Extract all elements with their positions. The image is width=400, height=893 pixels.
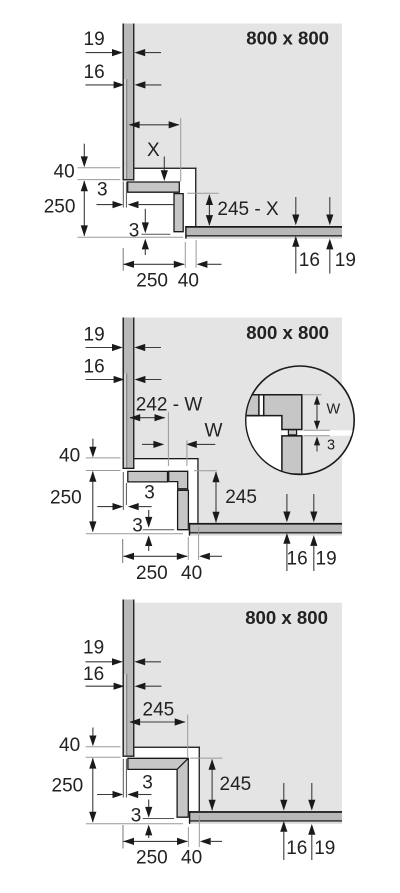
svg-text:W: W	[327, 402, 341, 418]
svg-text:3: 3	[327, 438, 335, 454]
svg-text:16: 16	[84, 62, 105, 83]
panel 3 miter joint line	[177, 759, 188, 769]
svg-text:245: 245	[220, 774, 252, 795]
dimension 16 and 19 bottom right panel 3	[283, 783, 285, 802]
svg-text:245 - X: 245 - X	[217, 199, 279, 220]
svg-text:250: 250	[136, 563, 168, 584]
svg-text:19: 19	[84, 324, 105, 345]
dimension 16 and 19 bottom right panel 2	[286, 494, 288, 513]
svg-text:245: 245	[143, 699, 175, 720]
svg-text:3: 3	[144, 482, 155, 503]
svg-text:19: 19	[314, 838, 335, 859]
svg-text:19: 19	[84, 29, 105, 50]
svg-text:250: 250	[136, 848, 168, 869]
panel 2 vertical corner bar	[178, 490, 189, 529]
svg-text:16: 16	[287, 549, 308, 570]
inset: white 3mm gap band	[282, 430, 356, 435]
svg-text:16: 16	[299, 250, 320, 271]
svg-text:16: 16	[83, 664, 104, 685]
svg-text:16: 16	[84, 357, 105, 378]
svg-text:800 x 800: 800 x 800	[246, 28, 329, 49]
svg-text:250: 250	[50, 488, 82, 509]
inset: vertical bar	[282, 436, 302, 474]
svg-text:242 - W: 242 - W	[136, 395, 203, 416]
panel 3 wall strip	[123, 600, 135, 757]
inset dimension W	[303, 394, 322, 396]
panel 1 wall strip (19mm lining)	[123, 24, 135, 181]
svg-text:3: 3	[132, 515, 143, 536]
dimension 245 right panel 2	[194, 470, 217, 472]
inset dimension 3	[304, 435, 331, 437]
svg-text:40: 40	[59, 446, 80, 467]
inset: L corner piece	[264, 395, 302, 430]
svg-text:245: 245	[225, 487, 257, 508]
panel 3 floor strip	[189, 813, 342, 820]
panel 1 vertical corner bar	[174, 194, 183, 232]
svg-text:3: 3	[142, 773, 153, 794]
svg-text:40: 40	[54, 162, 75, 183]
svg-text:19: 19	[83, 638, 104, 659]
bottom dimension row 250 and 40 panel 3	[122, 825, 124, 849]
svg-text:16: 16	[286, 838, 307, 859]
svg-text:250: 250	[52, 776, 84, 797]
inset: continuous top and bottom edges	[245, 394, 302, 396]
svg-text:19: 19	[316, 549, 337, 570]
bottom dimension row 250 and 40 panel 2	[122, 539, 124, 563]
panel 2: wall panel 800x800 field	[134, 318, 342, 523]
panel 1 floor strip	[185, 228, 342, 235]
panel 3: wall panel 800x800 field	[134, 603, 342, 811]
bottom dimension row 250 and 40	[122, 248, 124, 271]
svg-text:W: W	[205, 421, 223, 442]
panel 3 L angle profile	[128, 758, 188, 817]
svg-text:3: 3	[131, 805, 142, 826]
panel 1: wall panel 800x800 field	[134, 24, 342, 227]
svg-text:3: 3	[97, 180, 108, 201]
svg-text:40: 40	[178, 271, 199, 292]
panel 3 step cut edges	[133, 747, 200, 748]
panel 2 L corner piece	[169, 471, 188, 489]
panel 1 horizontal corner bar	[128, 182, 180, 192]
svg-text:3: 3	[129, 221, 140, 242]
svg-text:40: 40	[59, 735, 80, 756]
svg-text:40: 40	[181, 563, 202, 584]
svg-text:800 x 800: 800 x 800	[246, 322, 329, 343]
panel 1 step cut edges	[133, 168, 196, 169]
svg-text:40: 40	[181, 848, 202, 869]
svg-text:250: 250	[136, 271, 168, 292]
svg-text:250: 250	[44, 197, 76, 218]
svg-text:X: X	[147, 140, 160, 161]
dimension 16 and 19 bottom right	[295, 197, 297, 216]
inset: white open area below profile	[244, 416, 281, 476]
svg-text:19: 19	[335, 250, 356, 271]
panel 2 wall strip	[123, 318, 135, 470]
svg-text:800 x 800: 800 x 800	[245, 607, 328, 628]
panel 2 horizontal corner bar	[128, 471, 168, 482]
dimension 245 - X right	[187, 192, 218, 194]
dimension 245 right panel 3	[190, 757, 222, 759]
panel 2 floor strip	[189, 525, 342, 532]
inset: white joint slot	[259, 396, 264, 416]
inset: 3mm spacer nub	[288, 430, 296, 435]
inset: horizontal bar end	[240, 395, 259, 416]
panel 2 step cut edges	[133, 458, 198, 459]
